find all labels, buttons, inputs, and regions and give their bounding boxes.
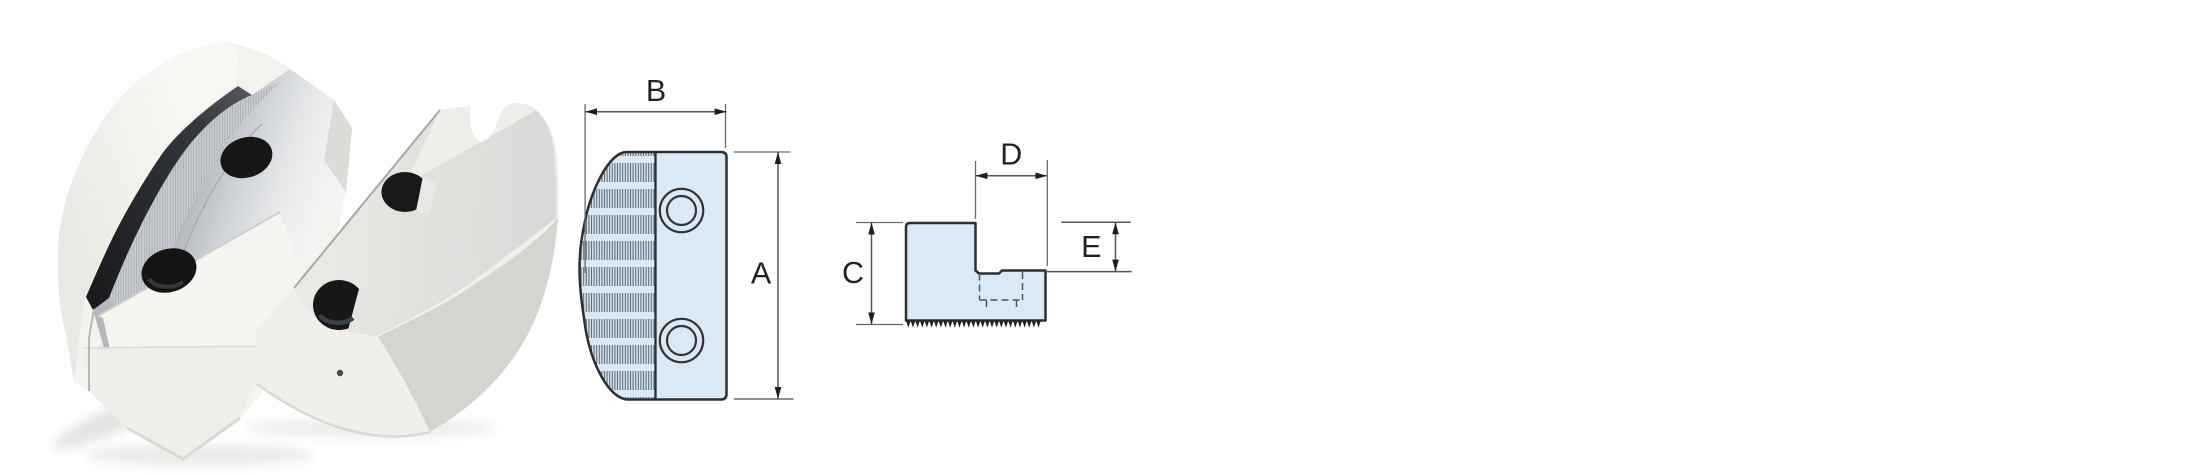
svg-text:E: E xyxy=(1081,230,1101,264)
svg-text:C: C xyxy=(842,256,864,290)
svg-text:B: B xyxy=(646,74,666,108)
svg-text:D: D xyxy=(1000,138,1022,172)
svg-text:A: A xyxy=(751,257,772,291)
